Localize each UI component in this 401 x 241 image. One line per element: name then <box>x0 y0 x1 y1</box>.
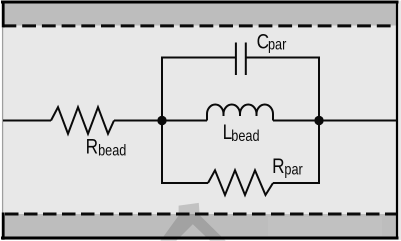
svg-text:bead: bead <box>231 128 259 145</box>
watermark A top blob <box>179 203 200 216</box>
wire: inductor to node B and right edge <box>273 120 397 122</box>
watermark faint light box on band <box>268 217 382 236</box>
wire: bottom branch right (R_par to node B) <box>273 120 319 184</box>
frame border left (thick beside bottom band) <box>2 213 5 240</box>
watermark A chevron legs <box>160 216 226 241</box>
bottom dashed separator <box>5 213 398 216</box>
label C_par <box>257 31 287 54</box>
svg-text:par: par <box>284 161 303 178</box>
capacitor C_par left plate <box>235 43 237 76</box>
frame border bottom <box>1 237 399 240</box>
frame border left (thick beside top band) <box>2 1 5 28</box>
label L_bead <box>223 122 260 146</box>
capacitor C_par right plate <box>245 43 247 76</box>
wire: R_bead to node A and on to inductor <box>114 120 207 122</box>
svg-text:par: par <box>268 36 287 53</box>
inductor junction tick 2 <box>239 114 241 116</box>
label R_par <box>272 156 303 179</box>
white sliver left edge <box>0 0 2 241</box>
wire: top branch right (plate to node B) <box>246 58 319 122</box>
frame border top <box>1 1 399 4</box>
white sliver top edge <box>0 0 401 2</box>
top shaded band <box>3 3 398 26</box>
svg-text:R: R <box>86 136 98 159</box>
resistor R_bead <box>51 107 114 134</box>
bottom shaded band <box>3 214 398 238</box>
inductor junction tick 3 <box>256 114 258 116</box>
top dashed separator <box>3 24 398 27</box>
wire: left lead into R_bead <box>3 120 51 122</box>
inductor L_bead <box>207 105 273 121</box>
resistor R_par <box>208 170 273 195</box>
frame border left (faint middle) <box>2 27 4 212</box>
frame border right <box>396 1 398 240</box>
inductor junction tick 1 <box>223 114 225 116</box>
node A junction dot <box>157 116 166 125</box>
label R_bead <box>86 136 127 160</box>
wire: bottom branch left (node A down to R_par) <box>162 120 208 184</box>
wire: top branch left (node A up and right) <box>162 58 236 122</box>
svg-text:bead: bead <box>98 143 126 160</box>
svg-text:R: R <box>272 156 284 179</box>
white sliver bottom edge <box>0 240 401 241</box>
node B junction dot <box>314 116 323 125</box>
